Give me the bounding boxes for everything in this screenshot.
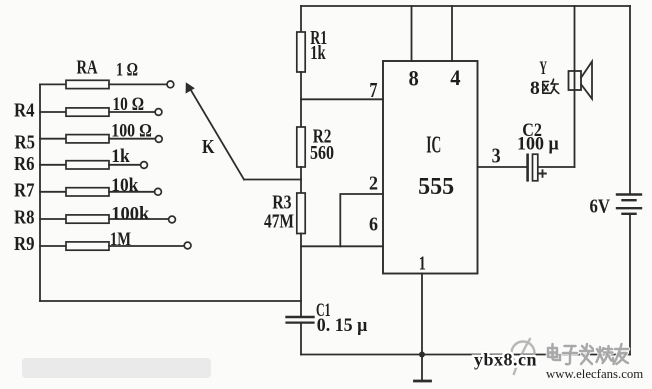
- watermark elecfans logo: [512, 338, 535, 375]
- wire speaker branch vertical: [574, 6, 576, 167]
- resistor R9: [40, 242, 184, 250]
- svg-text:RA: RA: [77, 57, 98, 79]
- wire pin 3: [478, 166, 527, 168]
- svg-text:4: 4: [450, 65, 460, 90]
- svg-text:8: 8: [409, 66, 419, 91]
- resistor R8: [40, 215, 169, 223]
- terminal R9: [184, 242, 191, 249]
- wire pin 8 lead: [411, 6, 413, 61]
- wire R3 to C1: [300, 234, 302, 317]
- svg-text:IC: IC: [426, 132, 441, 158]
- label glyph ou (Chinese ohm): [543, 79, 559, 93]
- speaker Y: [569, 62, 593, 99]
- switch K wiper arm: [186, 82, 244, 179]
- svg-text:R6: R6: [14, 153, 35, 175]
- wire bottom rail: [301, 354, 630, 356]
- wire top rail: [301, 5, 630, 7]
- svg-text:1k: 1k: [310, 42, 326, 64]
- terminal R4: [155, 109, 162, 116]
- svg-text:0. 15 μ: 0. 15 μ: [317, 315, 368, 336]
- svg-text:R7: R7: [14, 180, 35, 202]
- resistor R2: [297, 127, 305, 167]
- wire middle vertical top: [300, 6, 302, 32]
- resistor R3: [297, 193, 305, 234]
- resistor R5: [40, 135, 155, 143]
- wire C2 to speaker branch: [538, 166, 574, 168]
- terminal R6: [141, 162, 148, 169]
- svg-text:2: 2: [369, 173, 378, 195]
- svg-text:Y: Y: [539, 58, 547, 79]
- terminal RA: [167, 81, 174, 88]
- IC U1 555: [383, 61, 478, 274]
- capacitor C1: [287, 317, 314, 323]
- watermark gray box bottom-left: [22, 358, 211, 378]
- svg-text:R4: R4: [14, 100, 35, 122]
- resistor RA: [40, 80, 167, 88]
- svg-text:R8: R8: [14, 207, 35, 229]
- svg-text:555: 555: [418, 174, 454, 200]
- wire switch common: [244, 179, 301, 181]
- wire left bus: [39, 84, 41, 301]
- wire right rail upper: [629, 6, 631, 194]
- svg-text:10 Ω: 10 Ω: [113, 94, 145, 115]
- watermark Chinese characters dianzifashaoyou: [548, 344, 628, 364]
- svg-text:100 μ: 100 μ: [517, 134, 559, 155]
- resistor R4: [40, 108, 155, 116]
- wire R1 to R2: [300, 72, 302, 127]
- svg-text:1M: 1M: [110, 229, 131, 250]
- terminal R5: [155, 136, 162, 143]
- resistor R7: [40, 188, 155, 196]
- svg-text:www.elecfans.com: www.elecfans.com: [546, 367, 643, 381]
- svg-text:100 Ω: 100 Ω: [111, 121, 152, 142]
- capacitor C2 100u electrolytic: [528, 154, 546, 181]
- svg-text:1: 1: [419, 253, 426, 275]
- svg-text:1 Ω: 1 Ω: [116, 60, 138, 81]
- svg-text:K: K: [202, 136, 215, 158]
- junction dot pin1 bottom rail: [419, 352, 425, 358]
- terminal R8: [169, 216, 176, 223]
- wire pin 6: [301, 245, 383, 247]
- svg-text:R5: R5: [15, 132, 36, 154]
- wire pin 2: [340, 194, 383, 246]
- wire ladder bottom: [40, 300, 301, 302]
- wire pin7: [301, 98, 383, 100]
- wire pin 4 lead: [451, 6, 453, 61]
- terminal R7: [155, 188, 162, 195]
- svg-text:8: 8: [530, 78, 540, 99]
- svg-text:ybx8.cn: ybx8.cn: [474, 350, 537, 370]
- svg-text:6V: 6V: [590, 195, 611, 217]
- battery B1 6V: [617, 195, 641, 214]
- svg-text:6: 6: [369, 214, 378, 236]
- ground: [415, 355, 431, 382]
- svg-text:7: 7: [369, 78, 377, 102]
- svg-text:100k: 100k: [111, 204, 149, 225]
- svg-text:3: 3: [492, 144, 501, 168]
- svg-text:1k: 1k: [111, 146, 130, 167]
- svg-text:R9: R9: [14, 233, 35, 255]
- wire C1 to bottom rail: [300, 324, 302, 355]
- svg-text:560: 560: [310, 142, 334, 164]
- svg-text:10k: 10k: [111, 175, 138, 196]
- svg-text:47M: 47M: [264, 211, 294, 233]
- resistor R6: [40, 161, 141, 169]
- wire right rail lower: [629, 215, 631, 355]
- wire pin 1 lead: [421, 274, 423, 355]
- wire R2 to R3: [300, 167, 302, 193]
- resistor R1: [297, 32, 305, 72]
